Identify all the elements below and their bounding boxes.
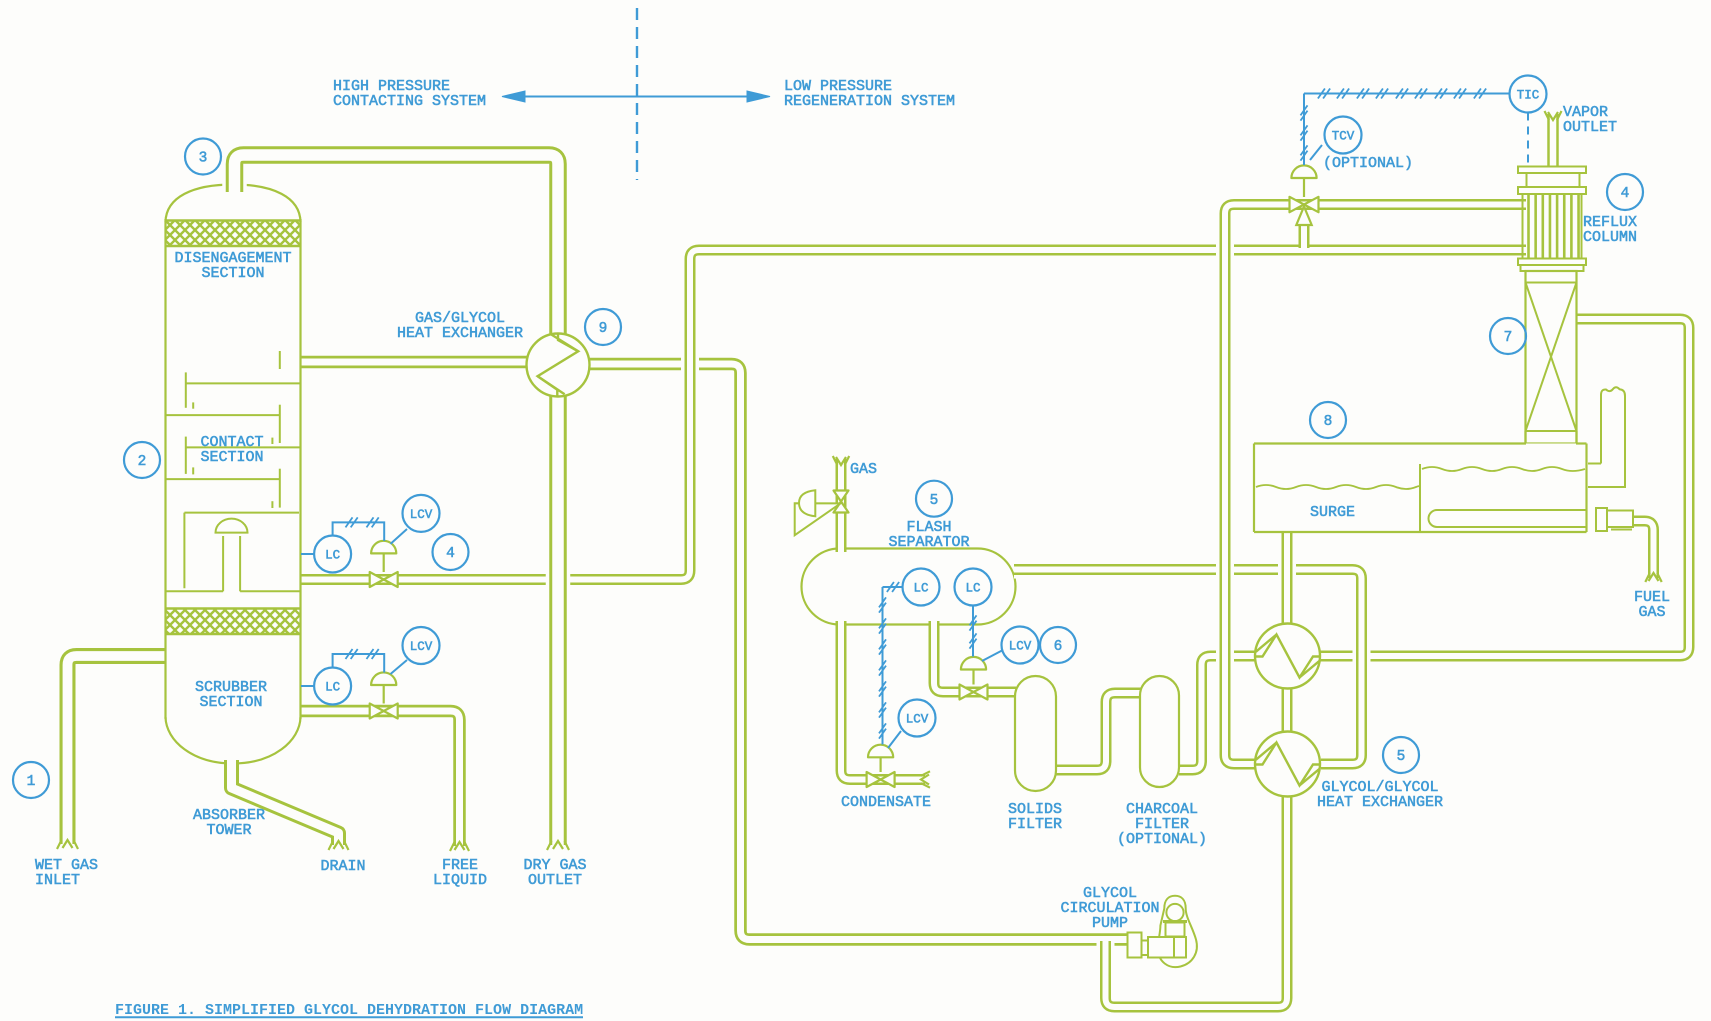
- svg-text:SECTION: SECTION: [201, 265, 264, 282]
- wire: TCV bypass stub into rich glycol line: [1299, 223, 1310, 248]
- balloon 7 (still column): [1490, 318, 1526, 354]
- wire: flash separator glycol outlet through level valve to solids filter: [934, 621, 1016, 692]
- instrument bubble LCV (absorber): [403, 495, 440, 532]
- svg-text:LCV: LCV: [906, 713, 929, 727]
- absorber chimney tray with downcomer: [184, 513, 299, 589]
- label: vapor outlet: [1563, 104, 1617, 136]
- svg-text:5: 5: [930, 493, 939, 509]
- balloon 9 (gas/glycol exchanger): [585, 309, 621, 345]
- svg-text:LCV: LCV: [410, 640, 433, 654]
- level control valve LCV-1 body (absorber): [370, 572, 398, 587]
- wire: rich glycol line from absorber level valve up and across to reflux coil: [301, 250, 1526, 580]
- label: gas (flash vent): [850, 461, 877, 478]
- label: fuel gas: [1634, 589, 1670, 621]
- svg-text:TIC: TIC: [1517, 89, 1540, 103]
- svg-text:7: 7: [1504, 330, 1513, 346]
- label: wet gas inlet: [35, 857, 98, 889]
- wire: glycol feed line from gas/glycol exchanger into absorber: [301, 356, 527, 369]
- absorber tray riser stub: [279, 351, 281, 369]
- instrument bubble LC (flash left): [903, 569, 940, 606]
- svg-text:PUMP: PUMP: [1092, 915, 1128, 932]
- wire: lean glycol line from gas/glycol exchanger down to circulation pump suction: [589, 364, 1128, 940]
- label: reflux column: [1583, 214, 1637, 246]
- level control valve LCV-1 actuator: [371, 541, 396, 572]
- svg-text:TOWER: TOWER: [206, 822, 251, 839]
- svg-text:TCV: TCV: [1332, 130, 1355, 144]
- level control valve LCV-2 actuator: [371, 672, 396, 703]
- condensate level valve body: [867, 772, 895, 787]
- svg-text:SEPARATOR: SEPARATOR: [888, 534, 969, 551]
- balloon 2 (contact section): [124, 442, 160, 478]
- svg-text:HEAT EXCHANGER: HEAT EXCHANGER: [397, 325, 523, 342]
- wire: vapor outlet pipe: [1547, 114, 1559, 166]
- svg-text:GAS: GAS: [850, 461, 877, 478]
- flash gas backpressure valve horn: [795, 490, 841, 535]
- wire: flash separator gas vent line: [836, 459, 847, 552]
- label: scrubber section: [195, 679, 267, 711]
- balloon 5 (flash separator): [916, 481, 952, 517]
- instrument bubble LC (flash right): [955, 569, 992, 606]
- surge tank internal weir: [1419, 464, 1421, 532]
- signal lines for flash glycol level control: [970, 606, 1003, 662]
- svg-text:LC: LC: [325, 681, 340, 695]
- balloon 4 (absorber level valve): [433, 534, 469, 570]
- absorber tray 4 (downcomer right): [166, 469, 280, 508]
- svg-text:4: 4: [446, 546, 455, 562]
- instrument bubble LCV (scrubber): [403, 627, 440, 664]
- svg-text:LCV: LCV: [410, 508, 433, 522]
- glycol/glycol heat exchanger lower circle: [1255, 732, 1320, 797]
- flash separator vessel: [802, 549, 1016, 625]
- label: solids filter: [1008, 801, 1062, 833]
- wire: flash separator condensate line: [841, 621, 925, 780]
- absorber tower shell: [166, 185, 301, 764]
- label: drain: [320, 858, 365, 875]
- wire: wet gas inlet pipe: [68, 656, 167, 844]
- label: absorber tower: [193, 807, 265, 839]
- svg-text:2: 2: [138, 454, 147, 470]
- signal lines for temperature control (TIC to TCV): [1301, 89, 1529, 167]
- wire: charcoal filter outlet up through glycol/glycol exchanger to still column feed: [1179, 319, 1689, 770]
- signal lines for condensate level control: [879, 582, 903, 748]
- reflux column finned condenser coil: [1518, 167, 1586, 272]
- svg-text:CONDENSATE: CONDENSATE: [841, 794, 931, 811]
- instrument bubble LC (scrubber): [314, 668, 351, 705]
- absorber tray 2 (downcomer right): [166, 405, 280, 444]
- label: glycol/glycol heat exchanger: [1317, 779, 1443, 811]
- wire: absorber drain line: [232, 760, 339, 845]
- wire: solids filter to charcoal filter transfer line: [1056, 693, 1141, 770]
- scrubber inlet bubble cap and riser: [216, 519, 248, 592]
- surge tank vent stack (open top): [1588, 387, 1625, 487]
- flash glycol level valve body: [960, 685, 988, 700]
- instrument bubble LCV (condensate): [899, 700, 936, 737]
- label: charcoal filter (optional): [1117, 801, 1207, 848]
- still column with packed section (X pattern): [1526, 271, 1577, 444]
- svg-text:LC: LC: [913, 582, 928, 596]
- figure caption: [115, 1002, 583, 1019]
- glycol circulation pump: [1128, 896, 1197, 967]
- instrument bubble LCV (flash glycol): [1002, 627, 1039, 664]
- label: low pressure regeneration system: [784, 78, 955, 110]
- label: high pressure contacting system: [333, 78, 486, 110]
- instrument bubble LC (absorber): [314, 536, 351, 573]
- svg-text:1: 1: [27, 774, 36, 790]
- svg-text:LC: LC: [325, 549, 340, 563]
- balloon 3 (overhead): [185, 139, 221, 175]
- svg-text:INLET: INLET: [35, 872, 80, 889]
- pipe break at drain: [329, 841, 349, 850]
- absorber mist extractor pad (disengagement section hatch): [166, 221, 300, 247]
- level control valve LCV-2 body (scrubber): [370, 704, 398, 719]
- charcoal filter vessel: [1140, 676, 1179, 787]
- surge tank shell: [1254, 444, 1587, 533]
- svg-text:SECTION: SECTION: [200, 449, 263, 466]
- balloon 4 (reflux column): [1607, 174, 1643, 210]
- svg-text:(OPTIONAL): (OPTIONAL): [1117, 831, 1207, 848]
- svg-text:SECTION: SECTION: [199, 694, 262, 711]
- condensate level valve actuator: [868, 745, 893, 772]
- label: tcv optional: [1323, 155, 1413, 172]
- label: free liquid: [433, 857, 487, 889]
- balloon 1 (wet gas inlet): [13, 762, 49, 798]
- wire: reflux coil return down to lower glycol/glycol exchanger (TCV line): [1225, 205, 1526, 765]
- svg-text:5: 5: [1397, 749, 1406, 765]
- wire: surge tank outlet through exchangers down to circulation pump discharge: [1106, 533, 1288, 1007]
- instrument bubble TCV: [1325, 117, 1362, 154]
- surge tank liquid level (left): [1256, 485, 1420, 489]
- balloon 5 (glycol/glycol exchanger): [1383, 737, 1419, 773]
- svg-text:OUTLET: OUTLET: [528, 872, 582, 889]
- absorber tray 3 (downcomer left): [186, 437, 301, 475]
- svg-text:COLUMN: COLUMN: [1583, 229, 1637, 246]
- balloon 8 (surge tank): [1310, 402, 1346, 438]
- surge tank liquid level (right): [1422, 467, 1585, 471]
- svg-text:3: 3: [199, 151, 208, 167]
- wire: flash gas crossing line to lower glycol/glycol exchanger: [1014, 570, 1362, 765]
- temperature control valve TCV actuator: [1291, 165, 1316, 225]
- wire: fuel gas supply pipe: [1634, 521, 1654, 578]
- still column skirt into surge tank: [1526, 431, 1577, 444]
- svg-text:(OPTIONAL): (OPTIONAL): [1323, 155, 1413, 172]
- label: surge: [1310, 504, 1355, 521]
- label: condensate: [841, 794, 931, 811]
- balloon 6 (flash level valve): [1040, 627, 1076, 663]
- label: disengagement section: [174, 250, 291, 282]
- svg-text:LCV: LCV: [1009, 640, 1032, 654]
- svg-text:LC: LC: [965, 582, 980, 596]
- firetube flange and fuel gas burner: [1596, 508, 1633, 531]
- svg-text:CONTACTING SYSTEM: CONTACTING SYSTEM: [333, 93, 486, 110]
- gas/glycol heat exchanger (circle with zigzag): [527, 334, 590, 397]
- scrubber section top boundary line: [166, 590, 301, 592]
- glycol/glycol heat exchanger upper circle: [1255, 624, 1320, 689]
- flash glycol level valve actuator: [961, 657, 986, 685]
- scrubber mist extractor pad hatch: [166, 609, 300, 635]
- pipe break at wet gas inlet: [57, 840, 78, 849]
- wire: dry gas overhead line from absorber through gas/glycol exchanger to dry gas outlet: [235, 155, 559, 845]
- label: flash separator: [888, 519, 969, 551]
- pipe break at dry gas outlet: [547, 841, 569, 850]
- svg-text:4: 4: [1621, 186, 1630, 202]
- instrument bubble TIC: [1510, 76, 1547, 113]
- svg-text:SURGE: SURGE: [1310, 504, 1355, 521]
- svg-text:OUTLET: OUTLET: [1563, 119, 1617, 136]
- svg-text:DRAIN: DRAIN: [320, 858, 365, 875]
- solids filter vessel: [1015, 676, 1056, 791]
- label: gas/glycol heat exchanger: [397, 310, 523, 342]
- pipe break at vapor outlet: [1545, 111, 1562, 120]
- svg-text:8: 8: [1324, 414, 1333, 430]
- pipe break at gas vent: [833, 456, 849, 465]
- svg-text:HEAT EXCHANGER: HEAT EXCHANGER: [1317, 794, 1443, 811]
- temperature control valve TCV body: [1290, 197, 1319, 212]
- pipe break at condensate outlet: [921, 771, 930, 787]
- signal lines for absorber level control: [301, 517, 407, 554]
- svg-text:LIQUID: LIQUID: [433, 872, 487, 889]
- signal lines for scrubber level control: [301, 649, 407, 686]
- high/low pressure divider arrow: [502, 91, 770, 102]
- label: glycol circulation pump: [1060, 885, 1159, 932]
- pipe break at fuel gas: [1645, 573, 1661, 582]
- svg-text:GAS: GAS: [1638, 604, 1665, 621]
- absorber tray 1 (downcomer left): [186, 372, 301, 408]
- flash separator gas vent valve: [834, 491, 849, 513]
- wire: scrubber level valve outlet to free liquid: [301, 711, 460, 846]
- label: contact section: [200, 434, 263, 466]
- svg-text:9: 9: [599, 321, 608, 337]
- svg-text:6: 6: [1054, 639, 1063, 655]
- svg-text:FILTER: FILTER: [1008, 816, 1062, 833]
- pipe break at free liquid: [450, 842, 469, 851]
- section divider dashed line: [636, 8, 638, 180]
- svg-text:REGENERATION SYSTEM: REGENERATION SYSTEM: [784, 93, 955, 110]
- label: dry gas outlet: [523, 857, 586, 889]
- surge tank firetube (U-tube): [1429, 510, 1587, 527]
